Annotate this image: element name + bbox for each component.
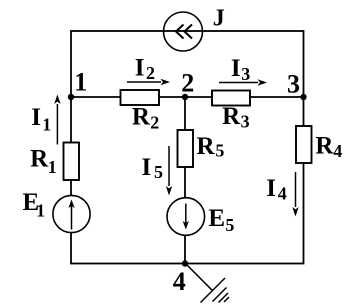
svg-text:4: 4 [173,267,186,296]
svg-text:1: 1 [36,200,45,220]
svg-text:I: I [231,55,241,82]
svg-text:3: 3 [241,64,250,84]
svg-text:2: 2 [150,113,159,133]
svg-text:3: 3 [287,69,300,98]
svg-text:I: I [266,175,276,202]
svg-text:2: 2 [146,63,155,83]
svg-text:3: 3 [241,111,250,131]
svg-text:J: J [213,6,225,32]
svg-text:5: 5 [215,141,224,161]
svg-text:I: I [142,154,152,181]
svg-text:I: I [135,54,145,81]
svg-text:5: 5 [225,215,234,235]
svg-text:1: 1 [74,68,87,97]
svg-text:4: 4 [333,141,342,161]
svg-text:I: I [31,104,41,131]
svg-text:5: 5 [154,162,163,182]
svg-text:R: R [30,146,49,173]
svg-text:R: R [315,133,334,160]
svg-text:R: R [132,104,151,131]
svg-text:E: E [208,205,225,232]
svg-text:1: 1 [48,157,57,177]
svg-text:2: 2 [181,69,194,98]
svg-text:1: 1 [42,114,51,134]
svg-text:4: 4 [278,184,287,204]
svg-text:R: R [222,103,241,130]
svg-text:R: R [197,133,216,160]
